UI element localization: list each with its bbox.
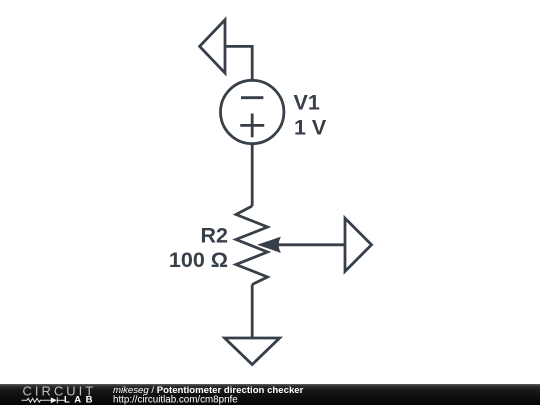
wire V1 bottom to R2 top [251,143,254,206]
svg-text:1 V: 1 V [294,116,327,140]
svg-text:http://circuitlab.com/cm8pnfe: http://circuitlab.com/cm8pnfe [113,395,238,405]
flag pointer top-left [200,20,225,73]
svg-text:LAB: LAB [64,394,97,405]
wire R2 bottom to ground [251,285,254,339]
potentiometer R2 zigzag [236,206,268,285]
wiper arrowhead [257,237,281,253]
voltage source V1 circle [221,80,284,143]
V1 minus sign [241,96,263,99]
footer bar [0,384,540,405]
wire flag to V1 top [225,46,252,81]
svg-text:R2: R2 [201,224,229,248]
flag pointer right [345,218,372,271]
V1 plus sign [240,124,264,127]
logo schematic doodle [22,397,67,403]
svg-text:100 Ω: 100 Ω [169,248,228,272]
ground symbol [225,338,280,365]
wiper wire to right flag [270,243,345,246]
svg-text:V1: V1 [294,91,320,115]
